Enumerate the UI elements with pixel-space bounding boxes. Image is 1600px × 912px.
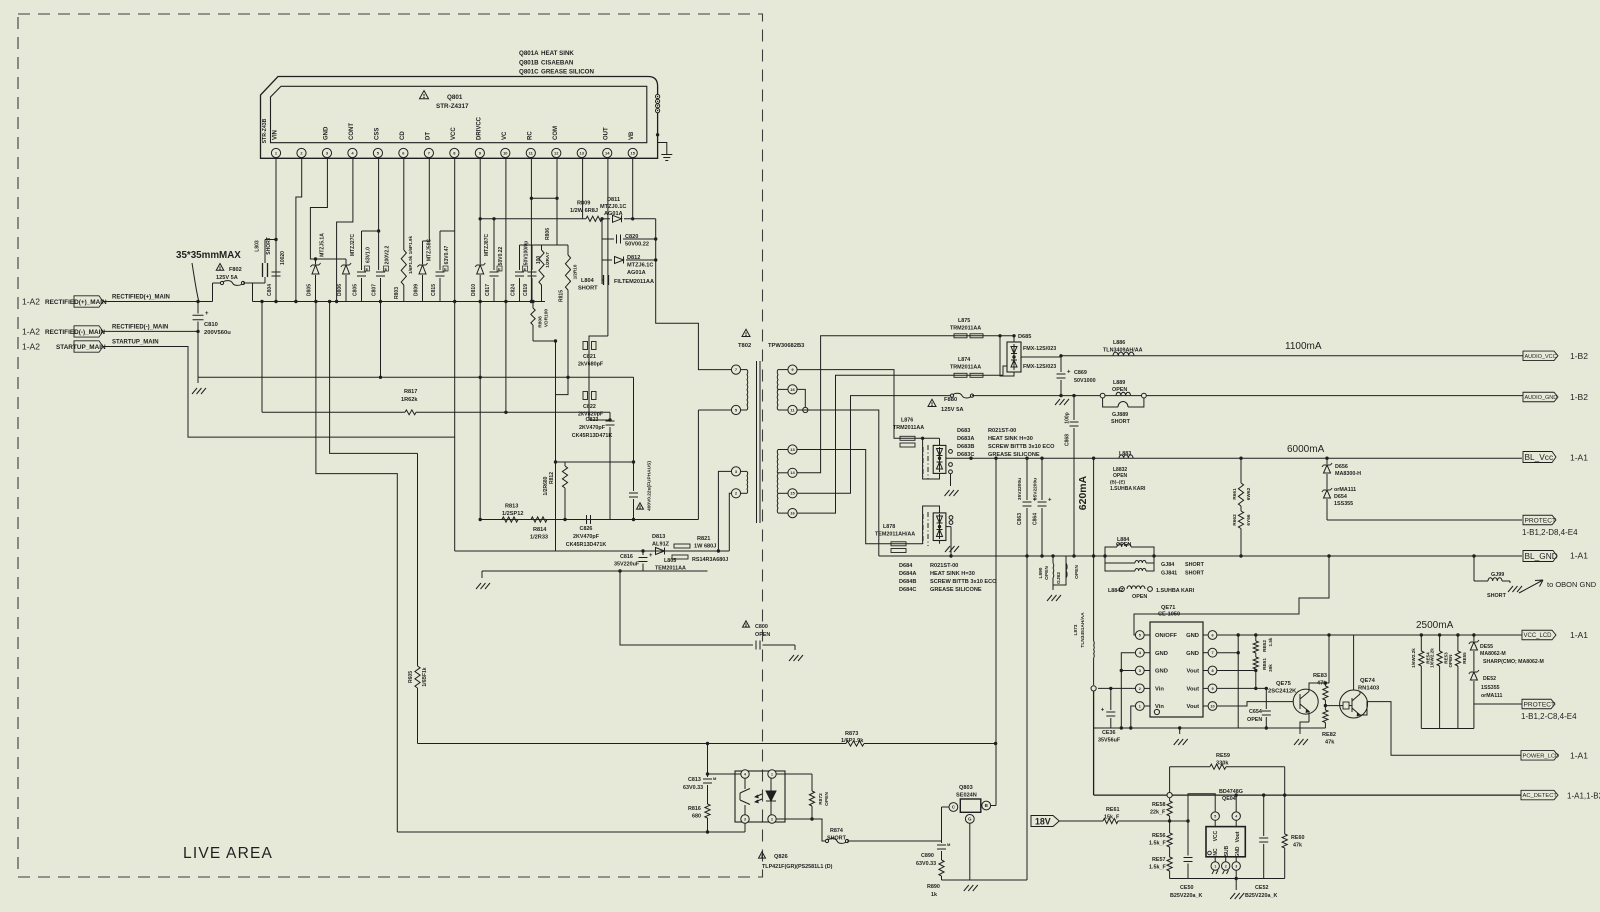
- svg-text:L886: L886: [1113, 340, 1125, 346]
- wire pin5 column: [697, 410, 699, 520]
- wire main input bus: [253, 301, 546, 303]
- svg-text:SHORT: SHORT: [1487, 593, 1507, 599]
- svg-text:CE36: CE36: [1102, 730, 1116, 736]
- inductor L886 TLN3409AH: [1103, 340, 1143, 356]
- junction pin9 rail519: [479, 518, 482, 521]
- junction x329 bus: [328, 300, 331, 303]
- size note 35*35mmMAX with pointer: [176, 250, 241, 300]
- svg-text:OPEN: OPEN: [1112, 387, 1127, 393]
- resistor R874 SHORT: [825, 828, 941, 843]
- svg-text:15k_F: 15k_F: [1104, 815, 1120, 821]
- wire C800 branch: [620, 571, 753, 645]
- wire pin7 staircase: [423, 158, 430, 242]
- svg-text:47k: 47k: [1317, 681, 1327, 687]
- svg-text:D810: D810: [471, 284, 477, 296]
- svg-text:1SS355: 1SS355: [1481, 685, 1500, 691]
- svg-text:C810: C810: [204, 322, 218, 328]
- svg-text:R803: R803: [394, 287, 400, 299]
- svg-text:D684B: D684B: [899, 579, 916, 585]
- svg-text:63V1.0: 63V1.0: [366, 247, 372, 263]
- svg-text:B25V220a_K: B25V220a_K: [1245, 893, 1277, 899]
- svg-text:OUT: OUT: [604, 127, 610, 140]
- ground IEC at IC pin GB: [666, 150, 668, 155]
- wire VCC_LCD rail 2500mA: [1217, 620, 1522, 635]
- ground 777 C869: [1055, 399, 1060, 405]
- resistor R872 OPEN: [776, 774, 830, 819]
- svg-text:CONT: CONT: [349, 123, 355, 140]
- svg-text:QE04: QE04: [1222, 796, 1236, 802]
- resistor RE53 1/6W2.2k: [1430, 633, 1449, 728]
- svg-text:1-A1: 1-A1: [1570, 551, 1588, 561]
- wire y462 link: [554, 460, 635, 463]
- svg-text:VB: VB: [629, 131, 635, 140]
- capacitor C804 100/20: [267, 238, 286, 296]
- svg-text:Vin: Vin: [1155, 687, 1164, 693]
- diode block D684 R021ST-00: [923, 506, 953, 558]
- resistor RE56 1.5k_F: [1149, 821, 1172, 847]
- svg-text:+: +: [1067, 370, 1071, 376]
- transformer T802 TPW30682B3: [738, 329, 805, 523]
- resistor RE61 15k_F: [1059, 807, 1188, 824]
- svg-text:1.5k_F: 1.5k_F: [1149, 841, 1166, 847]
- svg-text:50V100/0p: 50V100/0p: [524, 241, 530, 265]
- svg-text:1-A2: 1-A2: [22, 342, 40, 352]
- svg-text:D685: D685: [1018, 334, 1031, 340]
- optocoupler Q826 body: [735, 770, 785, 823]
- capacitor C815 63V0.47: [431, 231, 455, 302]
- pin 15 of Q801: [628, 131, 637, 158]
- svg-text:1-B1,2-D8,4-E4: 1-B1,2-D8,4-E4: [1522, 528, 1578, 537]
- svg-text:2KV470pF: 2KV470pF: [573, 534, 600, 540]
- svg-text:FMX-12S/023: FMX-12S/023: [1023, 364, 1056, 370]
- wire STARTUP row then down: [103, 347, 455, 438]
- svg-text:1-B1,2-C8,4-E4: 1-B1,2-C8,4-E4: [1521, 712, 1577, 721]
- svg-text:E: E: [498, 266, 501, 271]
- junction pin1 bus: [274, 300, 277, 303]
- capacitor C654 OPEN: [1247, 688, 1271, 728]
- svg-text:MTZJ0.1C: MTZJ0.1C: [600, 204, 626, 210]
- wire pin11 pin12 link bar: [530, 197, 559, 200]
- svg-text:L803: L803: [255, 240, 261, 252]
- svg-text:GND: GND: [323, 126, 329, 140]
- capacitor C868 100p: [1065, 394, 1079, 556]
- svg-text:RE61: RE61: [1106, 807, 1120, 813]
- wire pin7 to ground rail: [1217, 633, 1240, 728]
- svg-text:SHORT: SHORT: [827, 836, 847, 842]
- wire pin11 to BL_GND rail: [797, 410, 879, 556]
- svg-text:D656: D656: [1335, 464, 1348, 470]
- svg-text:C817: C817: [485, 284, 491, 296]
- wire L873 column from BL_Vcc: [1073, 457, 1095, 686]
- svg-text:RE58: RE58: [1152, 802, 1166, 808]
- svg-text:RE57: RE57: [1152, 857, 1166, 863]
- svg-text:47k: 47k: [1325, 740, 1335, 746]
- svg-text:L805: L805: [664, 558, 676, 564]
- inductor GJ99 SHORT to OBON GND: [1472, 554, 1522, 599]
- svg-text:R809: R809: [577, 201, 590, 207]
- svg-text:+: +: [649, 553, 653, 559]
- transformer secondary winding 13-14-15-16: [777, 445, 797, 518]
- resistor R806 1/2R47: [539, 228, 551, 302]
- heat sink note Q801A/B/C: [519, 50, 594, 76]
- wire branch to opto pin4: [706, 742, 741, 774]
- resistor RE59 330k loop: [1170, 753, 1285, 795]
- svg-text:+: +: [1048, 498, 1052, 504]
- resistor R812 1/2R680: [543, 462, 568, 520]
- svg-text:CISAEBAN: CISAEBAN: [541, 60, 574, 67]
- svg-text:OPEN: OPEN: [1074, 565, 1080, 579]
- svg-text:TRM2011AA: TRM2011AA: [893, 425, 924, 431]
- diode D813 AL91Z: [652, 534, 670, 555]
- svg-text:SUB: SUB: [1224, 845, 1230, 856]
- svg-text:R662: R662: [1232, 514, 1238, 526]
- svg-text:Vout: Vout: [1235, 831, 1241, 842]
- capacitor C821 2kV680pF: [578, 336, 608, 391]
- svg-text:R813: R813: [505, 504, 518, 510]
- svg-text:C820: C820: [625, 234, 638, 240]
- svg-text:(B)–(E): (B)–(E): [1110, 480, 1126, 485]
- svg-text:R812: R812: [549, 472, 555, 484]
- svg-text:MTZJ6.1C: MTZJ6.1C: [627, 263, 653, 269]
- svg-text:D683: D683: [957, 428, 970, 434]
- wire left vertical x602: [601, 219, 603, 284]
- svg-text:8: 8: [1211, 669, 1213, 673]
- junction x655 rows: [654, 237, 657, 261]
- wire x329 column staircase to R605: [330, 302, 418, 454]
- junction R812 rail519: [563, 518, 566, 521]
- svg-text:F802: F802: [229, 267, 242, 273]
- capacitor C807 200V2.2: [372, 245, 391, 301]
- svg-text:R605: R605: [408, 671, 414, 683]
- svg-text:2KV470pF: 2KV470pF: [579, 425, 606, 431]
- svg-text:VCC: VCC: [451, 127, 457, 140]
- svg-text:STARTUP_MAIN: STARTUP_MAIN: [56, 344, 106, 351]
- junction pin3 rail551: [717, 549, 720, 552]
- wire primary return y377: [198, 376, 634, 378]
- inductor L805 ferrite bead: [655, 544, 690, 572]
- svg-text:C824: C824: [511, 284, 517, 296]
- svg-text:35V2200u: 35V2200u: [1017, 478, 1023, 500]
- svg-text:1100mA: 1100mA: [1285, 341, 1322, 352]
- svg-text:AG01A: AG01A: [604, 211, 623, 217]
- resistor R661: [1232, 457, 1252, 507]
- svg-text:3: 3: [1235, 864, 1237, 868]
- pin 4 left of QE71: [1135, 648, 1167, 657]
- pin 14 of Q801: [603, 127, 612, 158]
- arrow to OBON GND: [1519, 580, 1597, 593]
- transistor QE75 2SC2412K: [1268, 681, 1318, 722]
- svg-text:1/6W2.2k: 1/6W2.2k: [1430, 648, 1435, 668]
- diode D812 MTZJ6.1C: [602, 255, 656, 276]
- svg-text:RECTIFIED(-)_MAIN: RECTIFIED(-)_MAIN: [112, 325, 168, 331]
- svg-text:C890: C890: [921, 853, 934, 859]
- svg-text:Q801: Q801: [447, 94, 463, 101]
- svg-text:D684C: D684C: [899, 587, 916, 593]
- svg-text:COM: COM: [553, 126, 559, 140]
- svg-text:Q801A: Q801A: [519, 50, 539, 57]
- svg-text:CD: CD: [400, 131, 406, 140]
- svg-text:BD4748G: BD4748G: [1219, 789, 1243, 795]
- svg-text:DRIVCC: DRIVCC: [476, 116, 482, 140]
- svg-text:GND: GND: [1186, 651, 1199, 657]
- svg-text:4: 4: [1235, 814, 1237, 818]
- svg-text:D811: D811: [607, 197, 620, 203]
- svg-text:1/2R10: 1/2R10: [573, 264, 578, 279]
- svg-text:1/2R33: 1/2R33: [530, 535, 548, 541]
- svg-text:RN1403: RN1403: [1358, 686, 1380, 692]
- inductor L889 OPEN with GJ889 SHORT bypass: [1100, 380, 1146, 425]
- IC QE04 BD4748G: [1206, 789, 1245, 858]
- svg-text:L889: L889: [1113, 380, 1125, 386]
- svg-text:6: 6: [1211, 633, 1213, 637]
- pin 13 of Q801: [577, 148, 586, 157]
- IC ground pads G8 G9: [656, 94, 667, 149]
- resistor R813 1/2SP12: [502, 504, 523, 523]
- svg-text:OPEN: OPEN: [1113, 473, 1128, 479]
- svg-text:VC: VC: [502, 131, 508, 140]
- svg-text:35*35mmMAX: 35*35mmMAX: [176, 250, 241, 261]
- pin 4 of Q801: [348, 123, 357, 158]
- wire pin3 to rail551: [718, 471, 731, 551]
- wire Vin pin2: [1091, 686, 1135, 795]
- svg-text:AUDIO_GND: AUDIO_GND: [1525, 395, 1558, 401]
- resistor RE60 47k: [1282, 793, 1304, 878]
- pin 8 of Q801: [450, 127, 459, 158]
- pin 10 right of QE71: [1187, 702, 1217, 711]
- svg-text:14: 14: [605, 150, 610, 155]
- svg-text:TLN3409AH/AA: TLN3409AH/AA: [1103, 348, 1143, 354]
- svg-text:13: 13: [790, 447, 795, 452]
- node STARTUP_MAIN input tag: [22, 341, 106, 352]
- inductor L890 OPEN to ground: [1038, 554, 1080, 601]
- svg-text:R817: R817: [404, 389, 417, 395]
- svg-text:CK45R13D471K: CK45R13D471K: [566, 542, 607, 548]
- wire QE74 collector to rail: [1353, 635, 1355, 690]
- wire pin13 down to L878: [797, 450, 890, 544]
- svg-text:D684: D684: [899, 563, 913, 569]
- svg-text:E: E: [366, 266, 369, 271]
- resistor R816 680: [688, 804, 710, 834]
- svg-text:10: 10: [1210, 704, 1214, 708]
- svg-text:5: 5: [1214, 814, 1216, 818]
- pin 1 left of QE71: [1135, 702, 1164, 711]
- pin 3 of QE04: [1232, 857, 1240, 890]
- wire pin13 to snubber row: [582, 158, 584, 219]
- svg-text:L890: L890: [1038, 567, 1044, 578]
- fuse F802 with warning: [213, 264, 253, 302]
- svg-text:CE50: CE50: [1180, 885, 1194, 891]
- ground 777 QE75 emitter: [1294, 722, 1309, 745]
- svg-text:D683B: D683B: [957, 444, 974, 450]
- capacitor C890 63V0.33: [916, 842, 951, 867]
- svg-text:VDR100: VDR100: [544, 309, 550, 327]
- wire snubber row y219: [479, 217, 587, 220]
- capacitor C869 50V1000: [1057, 356, 1096, 398]
- transformer secondary winding 9-16-11: [777, 365, 797, 415]
- label Q801 STR-Z4317: [436, 94, 469, 110]
- junction pin15 row: [631, 217, 634, 220]
- svg-text:R873: R873: [845, 731, 858, 737]
- svg-text:C807: C807: [372, 284, 378, 296]
- svg-text:6000mA: 6000mA: [1287, 444, 1325, 455]
- svg-text:SE024N: SE024N: [956, 793, 977, 799]
- capacitor C824 50V1000p: [511, 241, 532, 302]
- svg-text:50V0.22: 50V0.22: [498, 246, 504, 265]
- node VCC_LCD output tag: [1522, 630, 1588, 640]
- svg-text:2: 2: [1139, 687, 1141, 691]
- svg-text:C815: C815: [431, 284, 437, 296]
- svg-text:L875: L875: [958, 318, 970, 324]
- svg-text:1k: 1k: [931, 892, 937, 898]
- svg-text:680: 680: [692, 814, 701, 820]
- rail y519 snubber: [480, 519, 698, 521]
- junction ground rail points: [1120, 726, 1268, 729]
- svg-text:MA8062-M: MA8062-M: [1480, 651, 1506, 657]
- svg-text:D654: D654: [1334, 494, 1347, 500]
- svg-text:2kV680pF: 2kV680pF: [578, 362, 604, 368]
- svg-text:PROTECT: PROTECT: [1525, 517, 1557, 524]
- svg-text:Vout: Vout: [1187, 704, 1200, 710]
- diode D806 MTZJ27C: [337, 234, 356, 302]
- junction R817 left bus: [260, 300, 263, 303]
- svg-text:FILTEM2011AA: FILTEM2011AA: [614, 279, 654, 285]
- svg-text:1.5k_F: 1.5k_F: [1149, 865, 1166, 871]
- svg-text:RS14R3A680J: RS14R3A680J: [692, 557, 728, 563]
- labels D683 heat sink rows: [957, 428, 1055, 458]
- resistor R814 1/2R33: [530, 517, 548, 541]
- svg-text:DE55: DE55: [1480, 644, 1493, 650]
- svg-text:1/2R680: 1/2R680: [543, 476, 549, 495]
- svg-text:R874: R874: [830, 828, 843, 834]
- wire pin10 to QE75 base: [1217, 702, 1293, 706]
- svg-text:AC_DETECT: AC_DETECT: [1523, 793, 1558, 799]
- capacitor C864 35V2200u: [1033, 457, 1053, 558]
- pin 1 of QE04: [1211, 857, 1219, 874]
- svg-text:C864: C864: [1033, 513, 1039, 525]
- resistor R873 1/6P1.9k: [841, 731, 996, 746]
- svg-text:15: 15: [630, 150, 635, 155]
- svg-text:MTZJ27C: MTZJ27C: [350, 234, 356, 257]
- svg-text:AUDIO_VCC: AUDIO_VCC: [1525, 354, 1557, 360]
- wire PROTECT1 rail: [1327, 519, 1522, 521]
- svg-text:L804: L804: [581, 278, 595, 284]
- svg-text:PROTECT: PROTECT: [1524, 701, 1556, 708]
- junction pin10 y412: [504, 411, 507, 414]
- svg-text:R814: R814: [533, 527, 547, 533]
- wire pin15 down: [632, 158, 634, 219]
- node AUDIO_VCC output tag: [1523, 351, 1588, 361]
- wire resistor bottoms y728: [1421, 728, 1474, 730]
- svg-text:R661: R661: [1232, 488, 1238, 500]
- svg-text:OPEN: OPEN: [1448, 654, 1453, 668]
- svg-text:SHORT: SHORT: [1185, 562, 1205, 568]
- wire x316 column staircase to bottom rail: [316, 302, 397, 833]
- pin 7 right of QE71: [1186, 648, 1217, 657]
- inductor L884 OPEN with GJ84 GJ841 SHORT: [1103, 537, 1204, 577]
- svg-text:HEAT SINK H=30: HEAT SINK H=30: [988, 436, 1033, 442]
- svg-text:STR-Z43B: STR-Z43B: [262, 118, 268, 143]
- svg-text:15: 15: [790, 491, 795, 496]
- diode D811 MTZJ0.1C: [600, 197, 656, 222]
- svg-text:10: 10: [503, 150, 508, 155]
- wire ground rail extension: [1266, 727, 1325, 729]
- labels D684 heat sink rows: [899, 563, 997, 593]
- svg-text:GND: GND: [1186, 633, 1199, 639]
- svg-text:BL_GND: BL_GND: [1525, 551, 1558, 561]
- wire ON-OFF pin5 route: [1134, 556, 1329, 635]
- svg-text:QE75: QE75: [1276, 681, 1292, 687]
- svg-text:CSS: CSS: [374, 128, 380, 140]
- svg-text:22k_F: 22k_F: [1150, 810, 1166, 816]
- svg-text:SHORT: SHORT: [1185, 571, 1205, 577]
- capacitor CE52 B25V220a_K: [1245, 793, 1277, 899]
- svg-text:2SC2412K: 2SC2412K: [1268, 689, 1297, 695]
- capacitor C810 200V560u: [193, 302, 232, 378]
- svg-text:1/6BF1k: 1/6BF1k: [422, 667, 428, 686]
- svg-text:D809: D809: [414, 284, 420, 296]
- wire right vertical x655 to pin7: [656, 219, 732, 370]
- svg-text:RC: RC: [527, 131, 533, 140]
- IC QE71 CE-1050 box: [1150, 605, 1203, 717]
- capacitor CE50 B25V220a_K: [1170, 819, 1202, 899]
- pin 2 of Q801: [297, 148, 306, 157]
- svg-text:16: 16: [790, 387, 795, 392]
- svg-text:GJ889: GJ889: [1112, 412, 1128, 418]
- svg-text:12: 12: [554, 150, 559, 155]
- svg-text:E: E: [444, 266, 447, 271]
- node RECTIFIED(-)_MAIN input tag: [22, 326, 105, 337]
- node PROTECT2 output tag: [1521, 699, 1577, 721]
- capacitor C822 2kV820pF: [578, 391, 610, 420]
- resistor R890 1k: [927, 860, 944, 898]
- svg-text:1-A1: 1-A1: [1570, 751, 1588, 761]
- capacitor C863 35V2200u: [1017, 457, 1037, 881]
- svg-text:SCREW BITTB 3x10 ECO: SCREW BITTB 3x10 ECO: [988, 444, 1055, 450]
- wire pin14 up to L875 rail: [797, 336, 952, 473]
- capacitor C820 50V00.22: [602, 234, 656, 248]
- svg-text:R808: R808: [538, 316, 544, 328]
- svg-text:R021ST-00: R021ST-00: [988, 428, 1016, 434]
- svg-text:RB51: RB51: [1262, 658, 1267, 670]
- svg-text:L876: L876: [901, 418, 913, 424]
- svg-text:1/6P1.9k: 1/6P1.9k: [841, 738, 864, 744]
- wire AUDIO_VCC rail: [1061, 356, 1523, 357]
- svg-text:MA8300-H: MA8300-H: [1335, 471, 1361, 477]
- resistor R662: [1232, 506, 1252, 558]
- inductor L884Z OPEN note: [1108, 586, 1195, 600]
- svg-text:1.5k: 1.5k: [1268, 637, 1273, 646]
- node POWER_LCD output tag: [1521, 751, 1588, 761]
- svg-text:SHORT: SHORT: [578, 286, 598, 292]
- wire QE74 emitter to POWER_LCD: [1360, 702, 1521, 756]
- node open circle RE58 top: [1167, 793, 1172, 798]
- svg-text:R816: R816: [688, 806, 701, 812]
- svg-text:VCC: VCC: [1213, 830, 1219, 841]
- svg-text:50V1000: 50V1000: [1074, 378, 1096, 384]
- svg-text:63V0.47: 63V0.47: [444, 245, 450, 264]
- wire Q803 collector to C890: [942, 807, 950, 843]
- svg-text:G: G: [968, 817, 972, 822]
- wire PROTECT2 rail: [1474, 703, 1522, 705]
- svg-text:10020: 10020: [280, 251, 286, 265]
- svg-text:35V220uF: 35V220uF: [614, 562, 640, 568]
- wire QE71 ground rail y728: [1094, 727, 1326, 729]
- svg-text:C821: C821: [583, 354, 596, 360]
- svg-text:1-B2: 1-B2: [1570, 351, 1588, 361]
- wire GND pins 4,3 to ground rail: [1120, 653, 1136, 728]
- svg-text:125V 5A: 125V 5A: [216, 275, 238, 281]
- pin 9 right of QE71: [1187, 684, 1217, 693]
